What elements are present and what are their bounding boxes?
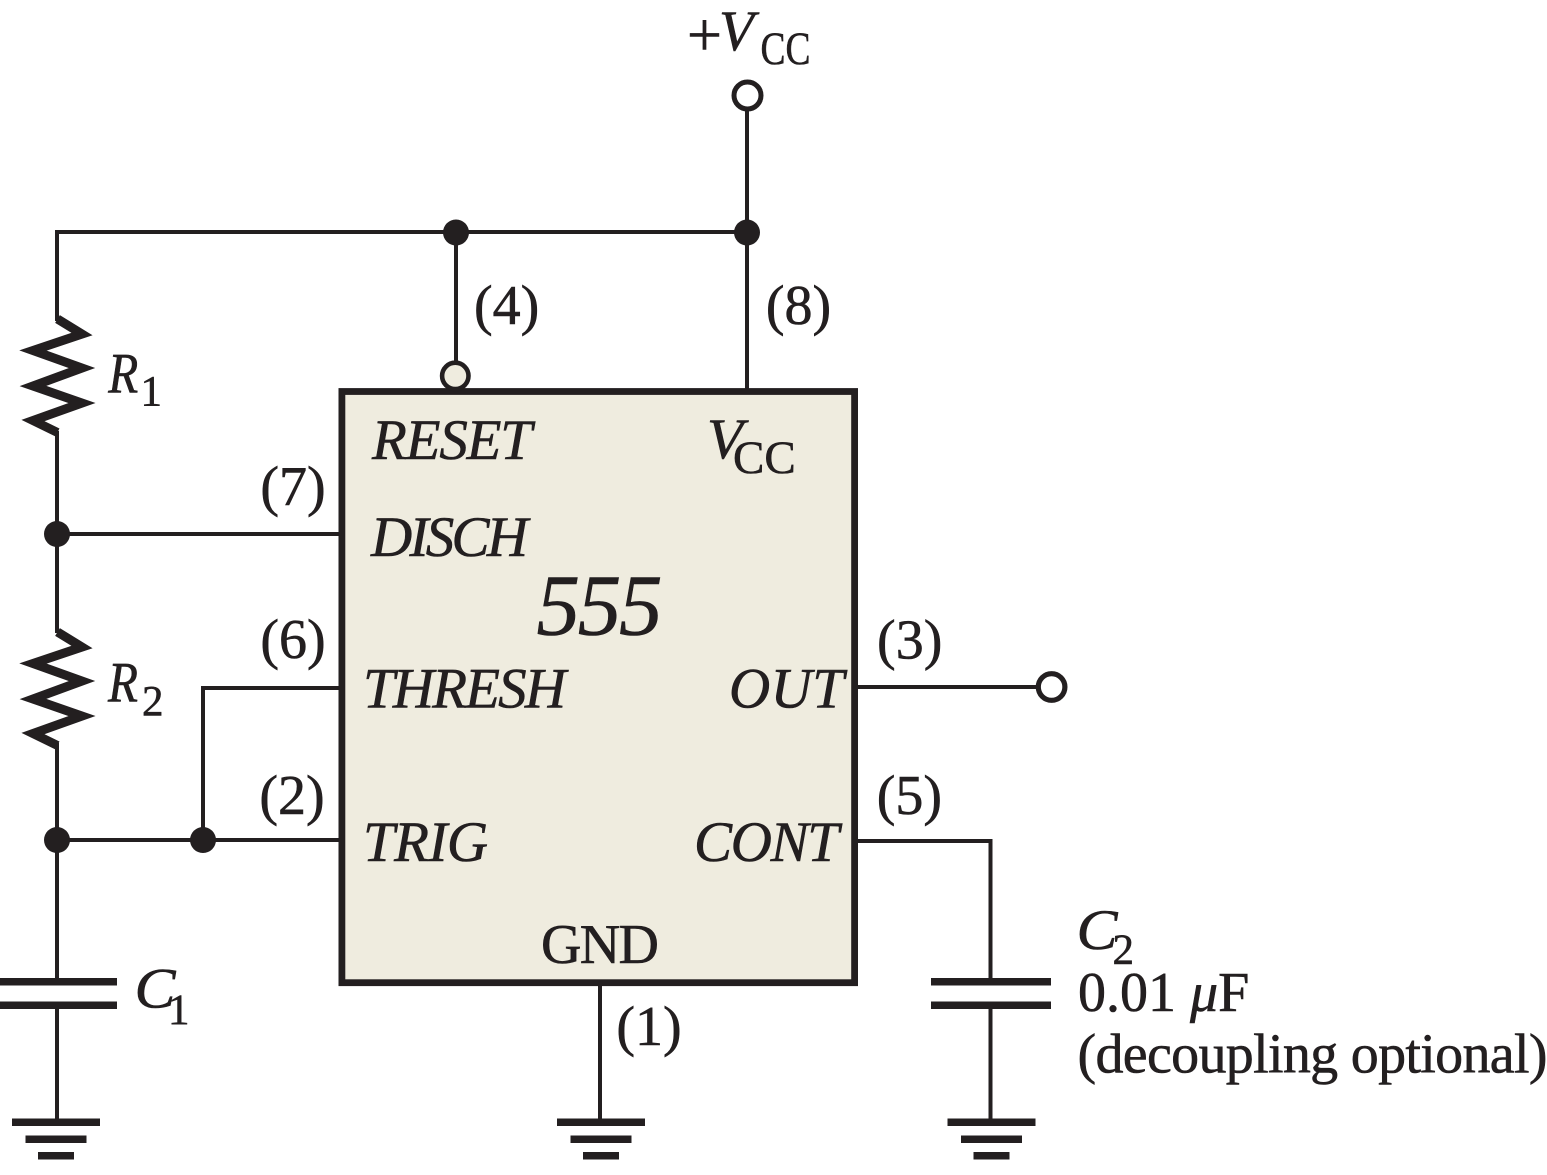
svg-text:(decoupling optional): (decoupling optional)	[1078, 1024, 1547, 1086]
svg-text:CC: CC	[761, 23, 811, 75]
IC U1 555 timer box	[342, 392, 855, 983]
svg-text:(1): (1)	[616, 996, 681, 1058]
wire R1 bottom to DISCH junction and on to R2	[55, 431, 59, 633]
svg-text:(2): (2)	[259, 765, 324, 827]
svg-text:CONT: CONT	[694, 811, 843, 874]
wire R2 bottom to TRIG junction	[55, 743, 59, 840]
wire CONT pin5 elbow	[857, 841, 991, 979]
svg-text:(6): (6)	[260, 609, 325, 671]
capacitor C1 label	[135, 958, 190, 1034]
svg-text:555: 555	[537, 557, 663, 654]
capacitor C2 plates	[931, 978, 1051, 1009]
wire C2 bottom stem	[989, 1008, 993, 1121]
terminal +Vcc open circle	[734, 82, 761, 109]
node junction dot pin8 rail	[734, 220, 760, 246]
resistor R1	[33, 319, 82, 433]
svg-text:CC: CC	[733, 432, 796, 484]
wire GND pin1 stem	[598, 984, 602, 1121]
wire OUT pin3	[857, 685, 1038, 689]
svg-text:0.01 μF: 0.01 μF	[1078, 962, 1249, 1024]
resistor R2 label	[107, 652, 163, 726]
node +Vcc label	[687, 0, 811, 75]
svg-text:TRIG: TRIG	[363, 811, 488, 874]
wire top rail with left drop to R1	[57, 232, 747, 321]
svg-text:+: +	[687, 2, 722, 70]
ground symbol left (C1)	[12, 1119, 100, 1160]
terminal OUT open circle pin3	[1038, 674, 1065, 701]
svg-text:RESET: RESET	[371, 409, 536, 472]
wire pin8 stem	[745, 232, 749, 390]
svg-text:1: 1	[168, 987, 190, 1034]
wire pin4 stem	[454, 232, 458, 362]
ground symbol right (C2)	[948, 1119, 1036, 1160]
svg-text:THRESH: THRESH	[363, 658, 569, 721]
svg-text:1: 1	[141, 369, 163, 416]
capacitor C1 plates	[0, 978, 117, 1009]
svg-text:(3): (3)	[877, 610, 942, 672]
wire THRESH pin6 elbow	[203, 688, 345, 840]
wire +Vcc stem	[745, 110, 749, 232]
svg-text:(8): (8)	[766, 275, 831, 337]
svg-text:2: 2	[142, 679, 164, 726]
svg-text:GND: GND	[541, 914, 659, 976]
ground symbol middle (pin1)	[557, 1119, 645, 1160]
svg-text:R: R	[107, 343, 138, 406]
resistor R1 label	[107, 343, 162, 416]
node junction dot THRESH-TRIG	[190, 827, 216, 853]
svg-text:(7): (7)	[260, 456, 325, 518]
terminal RESET open circle pin4	[442, 363, 468, 389]
svg-text:DISCH: DISCH	[370, 506, 531, 569]
svg-text:R: R	[107, 652, 138, 715]
wire TRIG pin2	[57, 838, 345, 842]
wire C1 top stem	[55, 840, 59, 979]
pin label Vcc	[707, 408, 796, 484]
svg-text:OUT: OUT	[729, 658, 848, 721]
node junction dot pin4 rail	[443, 220, 469, 246]
svg-text:(4): (4)	[474, 275, 539, 337]
wire C1 bottom stem	[55, 1008, 59, 1121]
wire DISCH pin7	[57, 532, 345, 536]
resistor R2	[33, 632, 82, 746]
svg-text:(5): (5)	[877, 765, 942, 827]
node junction dot R1-R2-DISCH	[44, 521, 70, 547]
node junction dot R2-C1-TRIG	[44, 827, 70, 853]
capacitor C2 label	[1077, 899, 1135, 974]
